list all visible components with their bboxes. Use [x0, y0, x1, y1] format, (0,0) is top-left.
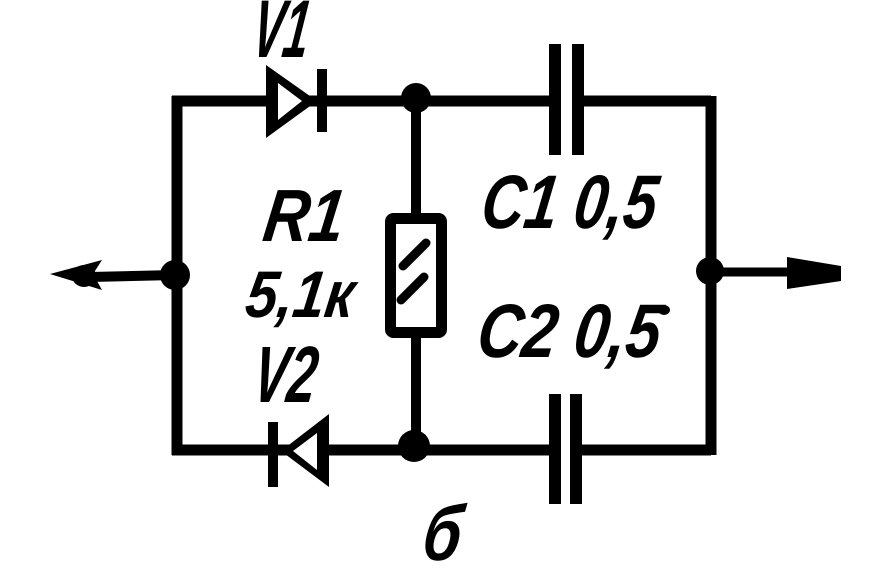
- node bottom junction: [398, 430, 430, 462]
- label b figure part: [418, 489, 470, 574]
- terminal arrow left: [50, 260, 175, 290]
- svg-text:б: б: [418, 489, 470, 574]
- label C1 0,5: [477, 160, 665, 245]
- wire middle lower: [411, 333, 421, 450]
- svg-text:R1: R1: [259, 174, 351, 257]
- wire middle upper: [411, 98, 421, 218]
- wire top-right segment: [578, 96, 711, 107]
- capacitor C1: [555, 44, 578, 155]
- wire bottom-right segment: [576, 445, 711, 456]
- svg-text:V2: V2: [248, 330, 324, 420]
- label C2 0,5: [472, 289, 668, 374]
- wire right vertical: [706, 96, 717, 455]
- label V1: [247, 0, 316, 75]
- svg-text:C2 0,5: C2 0,5: [472, 289, 668, 374]
- diode V1: [266, 65, 322, 138]
- wire top-left segment: [172, 96, 555, 107]
- node left terminal: [160, 260, 190, 290]
- resistor R1: [391, 219, 442, 333]
- wire bottom-left segment: [172, 445, 555, 456]
- svg-text:C1 0,5: C1 0,5: [477, 160, 665, 245]
- diode V2: [273, 414, 329, 487]
- capacitor C2: [555, 394, 576, 504]
- label 5,1k value of R1: [241, 258, 362, 332]
- wire left vertical: [172, 96, 183, 455]
- terminal arrow right: [710, 257, 841, 289]
- svg-text:V1: V1: [247, 0, 316, 75]
- svg-text:5,1к: 5,1к: [241, 258, 362, 332]
- label V2: [248, 330, 324, 420]
- ink speck: [658, 305, 670, 315]
- node top junction: [401, 83, 431, 113]
- node right terminal: [696, 257, 724, 285]
- label R1: [259, 174, 351, 257]
